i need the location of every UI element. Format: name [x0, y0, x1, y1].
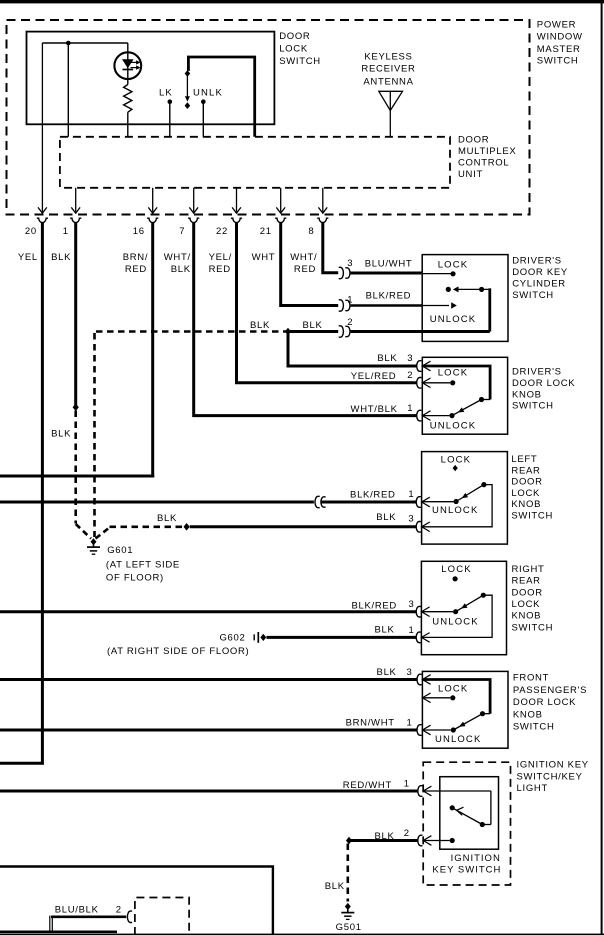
switch lever moving contact [185, 70, 191, 77]
wire BRN/WHT to front passenger (page edge) [0, 729, 417, 732]
svg-text:DOOR LOCK: DOOR LOCK [512, 378, 575, 389]
svg-text:BLK/RED: BLK/RED [351, 601, 397, 612]
wire YEL pin 20 vertical [41, 223, 44, 765]
svg-text:RIGHT: RIGHT [512, 564, 545, 575]
ignition key switch inner box [440, 777, 499, 850]
svg-text:UNIT: UNIT [458, 169, 483, 180]
svg-text:1: 1 [408, 489, 414, 500]
UNLK contact [201, 99, 206, 104]
page top border bar [0, 0, 604, 3]
svg-text:CYLINDER: CYLINDER [512, 278, 566, 289]
wire YEL/RED pin 22 [237, 223, 417, 383]
driver knob UNLOCK contact [422, 415, 449, 417]
pin 16 wire from unit [152, 188, 154, 212]
svg-text:RED: RED [125, 264, 147, 275]
svg-text:UNLOCK: UNLOCK [432, 617, 479, 628]
right rear common path [421, 595, 492, 637]
svg-text:SWITCH: SWITCH [511, 511, 553, 522]
wire BLK from G602 [267, 636, 417, 639]
wire BLU/BLK double drop [49, 916, 51, 932]
wire BLK/RED to right rear (page edge) [0, 610, 416, 613]
svg-text:BLK: BLK [51, 429, 71, 440]
connector YEL/RED 2 at box [417, 378, 422, 389]
svg-text:DOOR KEY: DOOR KEY [512, 267, 568, 278]
keyless receiver antenna symbol [379, 91, 403, 110]
pin 7 arrow [189, 207, 198, 213]
svg-text:BRN/WHT: BRN/WHT [346, 718, 395, 729]
driver knob lever [479, 397, 484, 402]
svg-text:KNOB: KNOB [512, 611, 542, 622]
svg-text:OF FLOOR): OF FLOOR) [106, 573, 164, 584]
svg-text:UNLOCK: UNLOCK [435, 734, 482, 745]
wire BLU/WHT [351, 272, 423, 275]
wire BLK dashed to ground [74, 411, 77, 524]
pin 20 connector [37, 218, 48, 222]
svg-text:3: 3 [407, 353, 413, 364]
pin 21 connector [275, 218, 286, 222]
svg-text:BLK/RED: BLK/RED [350, 489, 396, 500]
driver knob LOCK contact [422, 382, 450, 384]
svg-text:BLK/RED: BLK/RED [366, 291, 412, 302]
pin 21 wire from unit [280, 188, 282, 212]
resistor [124, 85, 132, 113]
wire: junction to control unit [67, 43, 69, 137]
svg-text:DOOR LOCK: DOOR LOCK [513, 697, 576, 708]
connector on BLK/RED wire [339, 300, 344, 311]
wire YEL horizontal to page edge [0, 762, 44, 765]
node: G601 wire junction [183, 523, 189, 531]
svg-text:2: 2 [347, 317, 353, 328]
svg-text:KEY SWITCH: KEY SWITCH [432, 865, 501, 876]
svg-text:IGNITION KEY: IGNITION KEY [517, 760, 589, 771]
svg-text:LOCK: LOCK [438, 368, 468, 379]
pin 8 arrow [318, 207, 327, 213]
wire BLK dashed to G501 [346, 844, 349, 902]
wire WHT/BLK pin 7 [194, 223, 417, 416]
svg-text:2: 2 [116, 905, 122, 916]
wire WHT/RED pin 8 [323, 223, 338, 273]
svg-text:UNLK: UNLK [193, 88, 223, 99]
wire BLK branch to driver knob switch [288, 332, 416, 367]
LED indicator [114, 52, 141, 79]
right rear door lock knob switch box [421, 561, 506, 654]
connector on BLU/WHT wire [339, 267, 344, 278]
svg-text:LOCK: LOCK [438, 683, 468, 694]
driver knob common path [422, 366, 490, 400]
svg-text:BLK: BLK [171, 264, 191, 275]
svg-text:REAR: REAR [512, 576, 541, 587]
wire BRN/RED pin 16 vertical [151, 223, 154, 478]
front passenger's door lock knob switch box [422, 671, 508, 748]
door multiplex control unit dashed box [60, 137, 450, 188]
ignition lever [480, 822, 485, 827]
svg-text:21: 21 [260, 226, 272, 237]
svg-text:IGNITION: IGNITION [451, 853, 501, 864]
ground G602 [253, 634, 255, 640]
svg-text:BLK: BLK [376, 512, 396, 523]
left rear UNLOCK contact [422, 501, 454, 503]
svg-text:DRIVER'S: DRIVER'S [512, 367, 562, 378]
svg-text:FRONT: FRONT [513, 673, 549, 684]
key cylinder UNLOCK contact [422, 305, 449, 307]
pin 7 connector [188, 218, 199, 222]
svg-text:RECEIVER: RECEIVER [361, 64, 415, 75]
svg-text:UNLOCK: UNLOCK [430, 421, 477, 432]
svg-text:BLK: BLK [374, 831, 394, 842]
wire BLK pin 1 vertical [74, 223, 77, 408]
svg-text:3: 3 [409, 599, 415, 610]
svg-text:BLU/BLK: BLU/BLK [55, 905, 99, 916]
svg-text:1: 1 [407, 718, 413, 729]
connector BLK 3 at box [416, 522, 421, 533]
svg-text:LIGHT: LIGHT [517, 783, 548, 794]
svg-text:LOCK: LOCK [511, 488, 540, 499]
pin 8 wire from unit [322, 188, 324, 212]
svg-text:DOOR: DOOR [512, 587, 543, 598]
svg-text:PASSENGER'S: PASSENGER'S [513, 685, 587, 696]
switch lever common (thick bracket) [188, 57, 254, 137]
wire WHT pin 21 [281, 223, 339, 306]
svg-text:BLK: BLK [377, 667, 397, 678]
svg-text:LOCK: LOCK [438, 259, 468, 270]
pin 16 connector [147, 218, 158, 222]
svg-text:LOCK: LOCK [441, 564, 471, 575]
svg-text:G601: G601 [107, 545, 133, 556]
wire BLK/RED [351, 304, 423, 306]
svg-text:SWITCH: SWITCH [537, 56, 579, 67]
svg-text:MASTER: MASTER [537, 44, 581, 55]
svg-text:ANTENNA: ANTENNA [363, 76, 413, 87]
wire bottom stub [0, 930, 117, 933]
svg-text:BLK: BLK [250, 320, 270, 331]
svg-text:YEL: YEL [18, 252, 38, 263]
wire BLK dashed segment [96, 330, 288, 333]
svg-text:KNOB: KNOB [513, 709, 543, 720]
pin 16 arrow [148, 207, 157, 213]
svg-text:YEL/RED: YEL/RED [351, 371, 397, 382]
svg-text:UNLOCK: UNLOCK [430, 314, 477, 325]
wire dashed BLK vertical x94.5 [93, 333, 96, 537]
svg-text:BLK: BLK [51, 252, 71, 263]
svg-text:LOCK: LOCK [279, 43, 308, 54]
svg-text:SWITCH: SWITCH [512, 622, 554, 633]
wire RED/WHT (page edge) [0, 790, 417, 793]
svg-text:DRIVER'S: DRIVER'S [512, 256, 562, 267]
connector BLK 3 at box [417, 674, 422, 685]
svg-text:LOCK: LOCK [441, 454, 471, 465]
door lock switch box [27, 32, 275, 125]
svg-text:DOOR: DOOR [458, 135, 489, 146]
svg-text:BLK: BLK [302, 320, 322, 331]
node: BLK junction (G501) [346, 837, 352, 845]
bottom dashed box [135, 898, 189, 935]
svg-text:7: 7 [179, 226, 185, 237]
svg-text:BLK: BLK [374, 625, 394, 636]
right rear UNLOCK contact [421, 611, 453, 613]
connector WHT/BLK 1 at box [417, 410, 422, 421]
svg-text:KNOB: KNOB [511, 499, 541, 510]
node: junction in door lock switch [66, 41, 71, 46]
wire BLK/RED to left rear (page edge) [0, 501, 314, 504]
svg-text:SWITCH: SWITCH [513, 722, 555, 733]
svg-text:POWER: POWER [537, 20, 576, 31]
svg-text:(AT LEFT SIDE: (AT LEFT SIDE [106, 560, 180, 571]
ignition BLK contact [423, 840, 449, 842]
connector BLK 2 [418, 835, 423, 846]
svg-text:LK: LK [159, 88, 173, 99]
svg-text:RED: RED [209, 264, 231, 275]
pin 8 connector [317, 218, 328, 222]
wire: top internal wire [42, 42, 128, 44]
svg-text:DOOR: DOOR [279, 31, 310, 42]
wire BLK solid segment [288, 330, 338, 333]
svg-text:CONTROL: CONTROL [458, 158, 509, 169]
bottom left box [0, 867, 273, 935]
svg-text:LOCK: LOCK [512, 599, 541, 610]
svg-text:8: 8 [308, 226, 314, 237]
front passenger UNLOCK contact [422, 729, 450, 731]
svg-text:BLK: BLK [325, 881, 345, 892]
wire BLK from G601 to left rear [190, 525, 416, 528]
node: BLK junction at diamond [285, 328, 291, 336]
svg-text:3: 3 [407, 667, 413, 678]
svg-text:WHT/: WHT/ [290, 252, 317, 263]
ignition key switch/key light dashed box [423, 762, 510, 885]
wire BRN/RED horizontal to page edge [0, 475, 154, 478]
LK contact [168, 99, 173, 104]
svg-text:BLK: BLK [377, 353, 397, 364]
svg-text:3: 3 [347, 258, 353, 269]
node: BLK junction [73, 404, 79, 412]
connector on BLK/RED (mid) [315, 496, 320, 507]
svg-text:1: 1 [347, 294, 353, 305]
svg-text:G501: G501 [336, 922, 362, 933]
driver's door key cylinder switch box [422, 255, 508, 342]
svg-text:SWITCH: SWITCH [279, 56, 321, 67]
svg-text:DOOR: DOOR [511, 477, 542, 488]
key cylinder LOCK contact [422, 273, 450, 275]
svg-text:1: 1 [409, 625, 415, 636]
svg-text:UNLOCK: UNLOCK [432, 505, 479, 516]
svg-text:RED/WHT: RED/WHT [343, 780, 392, 791]
svg-text:2: 2 [407, 370, 413, 381]
left rear lever [481, 482, 486, 487]
svg-text:SWITCH: SWITCH [512, 401, 554, 412]
left rear door lock knob switch box [422, 452, 508, 544]
svg-text:WHT/: WHT/ [164, 252, 191, 263]
ground G601 [91, 538, 97, 545]
wire BLK to front passenger (page edge) [0, 678, 417, 681]
svg-text:SWITCH: SWITCH [512, 290, 554, 301]
connector BLK 1 at box [416, 632, 421, 643]
page bottom border [0, 934, 604, 935]
connector BLK/RED 1 at box [416, 497, 421, 508]
svg-text:KNOB: KNOB [512, 389, 542, 400]
left rear common path [422, 485, 493, 527]
svg-text:WINDOW: WINDOW [537, 32, 583, 43]
svg-text:(AT RIGHT SIDE OF FLOOR): (AT RIGHT SIDE OF FLOOR) [107, 646, 249, 657]
ignition common path [423, 790, 491, 792]
svg-text:22: 22 [216, 226, 228, 237]
front passenger LOCK contact [422, 693, 430, 703]
connector RED/WHT 1 [418, 786, 423, 797]
wire BLK/RED to left rear box [321, 501, 416, 504]
svg-text:MULTIPLEX: MULTIPLEX [458, 146, 516, 157]
wire BLU/BLK [51, 915, 126, 918]
svg-text:2: 2 [404, 828, 410, 839]
left rear LOCK contact [453, 465, 458, 471]
svg-text:1: 1 [404, 779, 410, 790]
svg-text:BLK: BLK [157, 513, 177, 524]
pin 1 wire from unit [75, 188, 77, 212]
ground G501 [345, 903, 351, 910]
page right border [601, 0, 603, 935]
pin 20 wire from unit [41, 43, 43, 212]
svg-text:16: 16 [133, 226, 145, 237]
svg-text:WHT: WHT [252, 252, 276, 263]
wire BLK 2 (ignition) [349, 839, 417, 842]
connector BRN/WHT 1 at box [417, 725, 422, 736]
power window master switch dashed box [7, 20, 530, 215]
svg-text:KEYLESS: KEYLESS [364, 52, 412, 63]
right rear lever [481, 593, 486, 598]
pin 20 arrow [38, 207, 47, 213]
pin 21 arrow [276, 207, 285, 213]
pin 1 arrow [71, 207, 80, 213]
wire BLK into box [351, 330, 490, 333]
svg-text:REAR: REAR [511, 465, 540, 476]
svg-text:SWITCH/KEY: SWITCH/KEY [517, 771, 583, 782]
pin 22 wire from unit [236, 188, 238, 212]
svg-text:WHT/BLK: WHT/BLK [351, 404, 398, 415]
connector on BLK wire [339, 326, 344, 337]
svg-text:1: 1 [407, 403, 413, 414]
key cylinder lever [446, 287, 451, 292]
pin 22 connector [231, 218, 242, 222]
front passenger common path [422, 680, 490, 714]
G601 ground wire dashed [96, 528, 110, 539]
svg-text:1: 1 [63, 226, 69, 237]
svg-text:BLU/WHT: BLU/WHT [365, 259, 413, 270]
svg-text:G602: G602 [219, 633, 245, 644]
svg-text:LEFT: LEFT [511, 454, 537, 465]
pin 7 wire from unit [193, 188, 195, 212]
pin 22 arrow [232, 207, 241, 213]
connector BLU/BLK 2 [127, 911, 132, 922]
pin 1 connector [70, 218, 81, 222]
driver's door lock knob switch box [422, 357, 507, 434]
right rear LOCK contact [453, 576, 458, 581]
connector BLK/RED 3 at box [416, 606, 421, 617]
svg-text:RED: RED [294, 264, 316, 275]
svg-text:YEL/: YEL/ [209, 252, 232, 263]
svg-text:BRN/: BRN/ [123, 252, 149, 263]
connector BLK 3 at box [417, 361, 422, 372]
front passenger lever [480, 711, 485, 716]
svg-text:20: 20 [25, 226, 37, 237]
svg-text:3: 3 [408, 514, 414, 525]
